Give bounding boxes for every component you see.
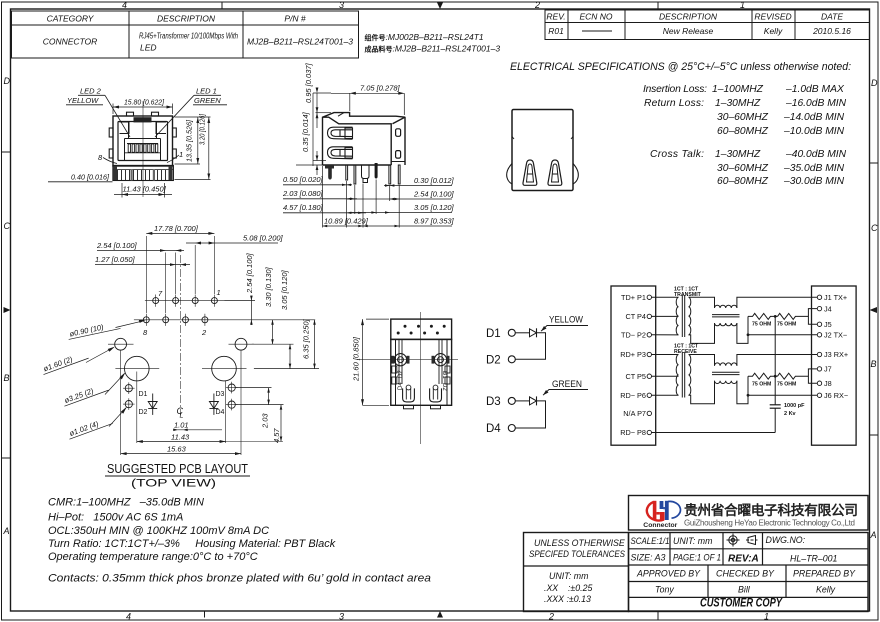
svg-text:.XX :±0.25: .XX :±0.25 <box>544 583 592 593</box>
svg-text:1: 1 <box>217 288 221 297</box>
choke L1 (transmit) <box>712 305 740 326</box>
resistor R1 75 OHM <box>748 313 778 319</box>
svg-text:1000 pF: 1000 pF <box>784 403 805 409</box>
svg-text:UNIT: mm: UNIT: mm <box>673 536 712 546</box>
wire T1 secondary bottom to choke B to J2 <box>689 316 818 343</box>
jack cavity <box>118 122 168 161</box>
svg-text:B: B <box>871 359 877 369</box>
svg-text:–10.0dB MIN: –10.0dB MIN <box>783 126 845 137</box>
svg-text:CT P4: CT P4 <box>625 312 646 321</box>
svg-text:L: L <box>180 413 184 420</box>
choke L2 (receive) <box>712 363 740 384</box>
LED recess right <box>156 122 166 134</box>
leader phi1.02 (4) <box>66 415 112 440</box>
svg-text:CT P5: CT P5 <box>625 372 646 381</box>
svg-text:SCALE:1/1: SCALE:1/1 <box>631 536 670 546</box>
side tabs <box>109 128 113 137</box>
pin block <box>391 319 452 339</box>
tolerance box <box>524 533 629 612</box>
svg-text:D4: D4 <box>216 409 225 416</box>
connector body outline <box>109 112 176 166</box>
body <box>391 339 452 405</box>
company header box <box>629 496 869 531</box>
black pin <box>375 163 378 179</box>
svg-text:D: D <box>4 76 11 86</box>
svg-text:2 Kv: 2 Kv <box>784 411 797 417</box>
svg-text:.XXX :±0.13: .XXX :±0.13 <box>544 594 591 604</box>
resistor R4 75 OHM <box>778 373 809 379</box>
wire P6 to T2 <box>652 394 679 396</box>
wire P3 to T2 <box>652 354 679 356</box>
svg-text:2.54 [0.100]: 2.54 [0.100] <box>245 252 254 294</box>
svg-text:UNIT: mm: UNIT: mm <box>549 571 588 581</box>
wire T2 secondary bottom to choke B to J6 <box>689 376 818 404</box>
LED pipe rects + labels rotated <box>392 366 450 384</box>
svg-text:RD+ P3: RD+ P3 <box>620 350 646 359</box>
svg-text:Insertion Loss:: Insertion Loss: <box>643 84 707 95</box>
svg-text:C: C <box>4 221 11 231</box>
mount posts <box>394 354 406 366</box>
right ordinate dims <box>324 176 455 226</box>
svg-text:PREPARED BY: PREPARED BY <box>793 569 856 579</box>
svg-text:ELECTRICAL SPECIFICATIONS @: ELECTRICAL SPECIFICATIONS @ 25°C+/–5°C u… <box>510 61 851 73</box>
svg-text:1–30MHZ: 1–30MHZ <box>715 149 761 160</box>
svg-text:4: 4 <box>122 0 127 10</box>
mount post side tabs <box>392 356 450 364</box>
svg-text:4: 4 <box>126 612 131 622</box>
svg-text:8.97 [0.353]: 8.97 [0.353] <box>414 217 455 226</box>
svg-text:30–60MHZ: 30–60MHZ <box>717 112 769 123</box>
svg-text:SPECIFED TOLERANCES: SPECIFED TOLERANCES <box>529 549 625 559</box>
svg-text:P/N #: P/N # <box>284 14 306 24</box>
svg-text:CATEGORY: CATEGORY <box>47 14 95 24</box>
svg-text:21.60 [0.850]: 21.60 [0.850] <box>352 336 361 382</box>
LED SCHEMATIC <box>486 315 588 436</box>
svg-text:D1: D1 <box>139 391 148 398</box>
svg-text:J4: J4 <box>824 304 832 313</box>
svg-text:5.08 [0.200]: 5.08 [0.200] <box>243 234 284 243</box>
svg-text:11.43 [0.450]: 11.43 [0.450] <box>123 185 167 194</box>
svg-text:D3: D3 <box>216 391 225 398</box>
svg-text:Tony: Tony <box>655 585 674 595</box>
svg-text:0.40 [0.016]: 0.40 [0.016] <box>71 173 110 182</box>
svg-text:1–100MHZ: 1–100MHZ <box>712 84 764 95</box>
right pin circles <box>817 295 821 397</box>
dark locator peg bottom-left <box>325 165 334 169</box>
transformer T2 label <box>674 343 699 355</box>
latch slot dark <box>134 117 152 122</box>
svg-text:–30.0dB MIN: –30.0dB MIN <box>783 176 845 187</box>
svg-text:REV:A: REV:A <box>728 554 759 565</box>
leader phi3.25 (2) <box>61 381 108 406</box>
svg-text:D1: D1 <box>486 328 501 340</box>
PCB LAYOUT <box>40 224 319 490</box>
pin number labels <box>143 288 221 337</box>
svg-text:75 OHM: 75 OHM <box>752 322 771 328</box>
small holes phi1.02 <box>123 382 238 411</box>
svg-text:MJ2B–B211–RSL24T001–3: MJ2B–B211–RSL24T001–3 <box>247 37 353 47</box>
wire T2 secondary top to choke to J3 <box>689 355 818 366</box>
wire P4 to T1 centre tap <box>652 315 679 317</box>
svg-text:RD− P6: RD− P6 <box>620 391 646 400</box>
left ordinate dims 0.50 2.03 4.57 <box>282 175 324 212</box>
svg-text:LED 1: LED 1 <box>196 87 217 96</box>
svg-text:R01: R01 <box>548 26 564 36</box>
svg-text:SUGGESTED PCB LAYOUT: SUGGESTED PCB LAYOUT <box>107 462 248 476</box>
projection symbols <box>727 534 758 547</box>
centerline <box>142 101 144 197</box>
svg-text:GREEN: GREEN <box>194 96 221 105</box>
pin dots <box>397 325 446 335</box>
svg-text:60–80MHZ: 60–80MHZ <box>717 126 769 137</box>
svg-text:1–30MHZ: 1–30MHZ <box>715 98 761 109</box>
svg-text:Cross Talk:: Cross Talk: <box>650 149 704 160</box>
svg-text:1.01: 1.01 <box>174 421 189 430</box>
top tabs <box>127 112 134 116</box>
resistor R3 75 OHM <box>748 373 778 379</box>
svg-text:D2: D2 <box>139 409 148 416</box>
svg-text:Kelly: Kelly <box>816 585 836 595</box>
svg-text:1.27 [0.050]: 1.27 [0.050] <box>95 255 136 264</box>
capacitor C1 1000pF 2Kv <box>774 316 776 404</box>
svg-text:1: 1 <box>764 612 769 622</box>
svg-text:–40.0dB MIN: –40.0dB MIN <box>785 149 847 160</box>
svg-text:–35.0dB MIN: –35.0dB MIN <box>783 163 845 174</box>
transformer T1 (transmit) <box>676 295 691 337</box>
svg-text:REV.: REV. <box>546 12 565 22</box>
svg-text:OCL:350uH MIN @ 100KHZ 100: OCL:350uH MIN @ 100KHZ 100mV 8mA DC <box>48 525 269 537</box>
svg-text:6.35 [0.250]: 6.35 [0.250] <box>302 318 311 359</box>
LED2 diode <box>530 397 537 405</box>
FRONT VIEW <box>48 87 227 198</box>
svg-text:2.54 [0.100]: 2.54 [0.100] <box>413 190 455 199</box>
body outline <box>323 113 406 165</box>
leader phi1.60 (2) <box>40 349 88 374</box>
bracket J4 J5 <box>808 309 817 325</box>
revision table top-right <box>545 10 870 40</box>
svg-text:GREEN: GREEN <box>552 379 582 390</box>
latch A left <box>523 160 537 185</box>
wire D3 to LED2 anode <box>515 400 529 402</box>
mounting hole phi1.60 left <box>108 338 254 350</box>
bottom tabs <box>404 405 414 409</box>
svg-text:3.05 [0.120]: 3.05 [0.120] <box>280 269 289 310</box>
svg-text:UNLESS OTHERWISE: UNLESS OTHERWISE <box>534 538 625 548</box>
big hole phi3.25 left + right <box>115 356 246 381</box>
svg-text:Bill: Bill <box>738 585 751 595</box>
svg-text:0.35 [0.014]: 0.35 [0.014] <box>301 111 310 152</box>
pins <box>346 165 400 184</box>
svg-text:D3: D3 <box>486 396 501 408</box>
LED symbol left (vertical diode) <box>148 394 157 415</box>
connector pin box left <box>611 286 656 445</box>
svg-text:J8: J8 <box>824 379 832 388</box>
svg-text:PAGE:1 OF 1: PAGE:1 OF 1 <box>673 553 721 563</box>
bottom-left spec notes <box>48 497 431 585</box>
centerline vertical <box>179 255 181 415</box>
SIDE VIEW <box>282 62 455 227</box>
svg-text:DWG.NO:: DWG.NO: <box>766 535 806 545</box>
shelf line <box>127 143 158 145</box>
side notches <box>512 137 514 140</box>
svg-text:贵州省合曜电子科技有限公司: 贵州省合曜电子科技有限公司 <box>684 502 858 518</box>
svg-text:15.63: 15.63 <box>167 444 187 453</box>
dim 15.80 [0.622] <box>113 104 173 115</box>
svg-text:Connector: Connector <box>643 522 678 529</box>
svg-text:ECN NO: ECN NO <box>579 12 612 22</box>
slot pin tips <box>406 385 411 390</box>
svg-text:–16.0dB MIN: –16.0dB MIN <box>785 98 847 109</box>
spring clip lower <box>328 147 353 159</box>
svg-text:New Release: New Release <box>663 26 714 36</box>
svg-text:75 OHM: 75 OHM <box>777 381 796 387</box>
svg-text:2: 2 <box>201 328 207 337</box>
svg-text:SIZE: A3: SIZE: A3 <box>631 553 666 563</box>
svg-text:Kelly: Kelly <box>764 26 783 36</box>
svg-text:–1.0dB MAX: –1.0dB MAX <box>785 84 845 95</box>
wire P1 to T1 <box>652 296 679 298</box>
svg-text:J1 TX+: J1 TX+ <box>824 293 847 302</box>
svg-text:J2 TX−: J2 TX− <box>824 331 847 340</box>
svg-text:2: 2 <box>534 0 540 10</box>
svg-text:2.54 [0.100]: 2.54 [0.100] <box>96 241 138 250</box>
svg-text:D4: D4 <box>486 423 501 435</box>
logo mark <box>643 501 680 529</box>
svg-text:RJ45+Transformer 10/100Mbps: RJ45+Transformer 10/100Mbps With <box>139 31 238 41</box>
electrical specifications text <box>510 61 851 187</box>
part number notes <box>365 32 501 54</box>
latch window walls <box>125 122 161 139</box>
BOTTOM VIEW <box>352 312 459 444</box>
svg-text:4.57 [0.180]: 4.57 [0.180] <box>283 203 324 212</box>
svg-text:Hi–Pot: 1500v AC 6S 1mA: Hi–Pot: 1500v AC 6S 1mA <box>48 512 183 524</box>
svg-text:2.03 [0.080]: 2.03 [0.080] <box>282 189 324 198</box>
LED recess left <box>120 122 130 134</box>
section pins through body <box>399 339 442 384</box>
svg-text:RECEIVE: RECEIVE <box>674 349 697 355</box>
svg-text:D1: D1 <box>441 371 447 379</box>
svg-text:CMR:1–100MHZ –35.0dB MIN: CMR:1–100MHZ –35.0dB MIN <box>48 497 204 509</box>
bottom slots <box>403 388 442 402</box>
svg-text:A: A <box>3 526 10 536</box>
svg-text:3.30 [0.130]: 3.30 [0.130] <box>264 266 273 307</box>
svg-text:YELLOW: YELLOW <box>549 315 583 326</box>
svg-text:LED 2: LED 2 <box>80 87 102 96</box>
svg-text:11.43: 11.43 <box>171 432 190 441</box>
svg-text:C: C <box>871 223 878 233</box>
svg-text:TD+ P1: TD+ P1 <box>621 293 646 302</box>
wire LED1 cathode to D2 <box>515 333 545 360</box>
svg-text:75 OHM: 75 OHM <box>777 322 796 328</box>
wire D1 to LED1 anode <box>515 332 529 334</box>
svg-text:–14.0dB MIN: –14.0dB MIN <box>783 112 845 123</box>
body rectangle <box>512 110 573 191</box>
svg-text:REVISED: REVISED <box>754 12 791 22</box>
right panel holes <box>396 129 401 137</box>
svg-text:HL–TR–001: HL–TR–001 <box>790 554 838 564</box>
pin row 1 holes (7,5,3,1) <box>145 295 225 307</box>
svg-text:13.35 [0.526]: 13.35 [0.526] <box>185 119 194 162</box>
extension ticks <box>323 166 400 228</box>
svg-text:RD− P8: RD− P8 <box>620 428 646 437</box>
svg-text:4.57: 4.57 <box>272 428 281 443</box>
svg-text:75 OHM: 75 OHM <box>752 381 771 387</box>
svg-text:(TOP VIEW): (TOP VIEW) <box>131 478 216 490</box>
latch A right <box>548 160 562 185</box>
svg-text:17.78 [0.700]: 17.78 [0.700] <box>154 224 199 233</box>
svg-text:A: A <box>870 530 877 540</box>
LED symbol right <box>209 394 218 415</box>
svg-text:CHECKED BY: CHECKED BY <box>716 569 775 579</box>
svg-text:1: 1 <box>740 0 745 10</box>
pin row 2 holes (8,6,4,2) <box>134 314 315 326</box>
svg-text:Turn Ratio: 1CT:1CT+/–3%: Turn Ratio: 1CT:1CT+/–3% Housing Materia… <box>48 538 336 550</box>
contact teeth x8 <box>125 144 161 153</box>
svg-text:Contacts: 0.35mm thick phos: Contacts: 0.35mm thick phos bronze plate… <box>48 573 431 585</box>
svg-text:0.30 [0.012]: 0.30 [0.012] <box>414 176 455 185</box>
centerline <box>420 312 422 444</box>
svg-text:J7: J7 <box>824 365 832 374</box>
svg-text:D2: D2 <box>486 355 501 367</box>
dim 11.43 [0.450] <box>114 183 172 198</box>
svg-text:CONNECTOR: CONNECTOR <box>43 37 98 47</box>
connector pin box right <box>812 286 857 445</box>
wire LED2 cathode to D4 <box>515 401 545 428</box>
svg-text:15.80 [0.622]: 15.80 [0.622] <box>124 98 165 107</box>
skirt with comb teeth <box>113 165 173 180</box>
right pin labels <box>824 293 848 400</box>
svg-text:J3 RX+: J3 RX+ <box>824 350 848 359</box>
svg-text:CUSTOMER COPY: CUSTOMER COPY <box>700 598 783 610</box>
junction dots <box>747 315 777 397</box>
svg-text:3.20 [0.126]: 3.20 [0.126] <box>198 113 207 145</box>
svg-text:DESCRIPTION: DESCRIPTION <box>659 12 718 22</box>
svg-text:3: 3 <box>339 0 344 10</box>
resistor R2 75 OHM <box>778 313 809 319</box>
svg-text:YELLOW: YELLOW <box>67 96 99 105</box>
svg-text:Operating temperature range:: Operating temperature range:0°C to +70°C <box>48 551 258 563</box>
svg-text:B: B <box>4 373 10 383</box>
REAR VIEW <box>507 110 579 191</box>
svg-text:1: 1 <box>179 150 183 159</box>
header table top-left <box>12 11 359 58</box>
LED1 diode <box>530 329 537 337</box>
svg-text:Return Loss:: Return Loss: <box>644 98 704 109</box>
svg-text:D: D <box>871 78 878 88</box>
svg-text:J6 RX−: J6 RX− <box>824 391 848 400</box>
wire P8 to capacitor <box>652 432 776 434</box>
svg-text:J5: J5 <box>824 320 832 329</box>
wire P2 to T1 <box>652 334 679 336</box>
MAIN SCHEMATIC <box>611 286 856 445</box>
svg-text:0.50 [0.020]: 0.50 [0.020] <box>283 175 324 184</box>
extension lines up from pins <box>146 236 214 313</box>
main grid <box>629 533 869 612</box>
svg-text:30–60MHZ: 30–60MHZ <box>717 163 769 174</box>
left pin labels <box>620 293 646 437</box>
svg-text:3: 3 <box>339 612 344 622</box>
svg-text:7.05 [0.278]: 7.05 [0.278] <box>360 84 401 93</box>
dim 13.35 / 3.20 vertical <box>175 117 211 180</box>
svg-text:3.05 [0.120]: 3.05 [0.120] <box>414 203 455 212</box>
wire P5 to T2 centre tap <box>652 375 679 377</box>
svg-text:60–80MHZ: 60–80MHZ <box>717 176 769 187</box>
svg-text:DESCRIPTION: DESCRIPTION <box>157 14 216 24</box>
svg-text:0.95 [0.037]: 0.95 [0.037] <box>304 62 313 103</box>
svg-text:2: 2 <box>548 612 554 622</box>
LED 2 label <box>67 87 221 106</box>
transformer T1 label <box>674 287 702 299</box>
svg-text:DATE: DATE <box>821 12 843 22</box>
wire T1 secondary top to choke to J1 <box>689 297 818 308</box>
svg-text:GuiZhousheng HeYao Electronic: GuiZhousheng HeYao Electronic Technology… <box>684 519 855 528</box>
left pin circles <box>647 295 651 435</box>
leader phi0.90 (10) <box>67 319 121 339</box>
bracket J7 J8 <box>808 369 817 383</box>
svg-text:N/A P7: N/A P7 <box>623 409 646 418</box>
svg-text:D2: D2 <box>398 370 404 378</box>
svg-text:2.03: 2.03 <box>261 413 270 429</box>
transformer T2 (receive) <box>676 352 691 397</box>
svg-text:TD− P2: TD− P2 <box>621 331 646 340</box>
title block <box>524 496 869 612</box>
svg-text:2010.5.16: 2010.5.16 <box>812 26 851 36</box>
spring clip upper <box>328 127 353 139</box>
side wings <box>507 164 512 185</box>
svg-text:LED: LED <box>140 43 157 53</box>
D1 D2 D3 D4 labels <box>139 391 225 416</box>
svg-text:APPROVED BY: APPROVED BY <box>636 569 701 579</box>
